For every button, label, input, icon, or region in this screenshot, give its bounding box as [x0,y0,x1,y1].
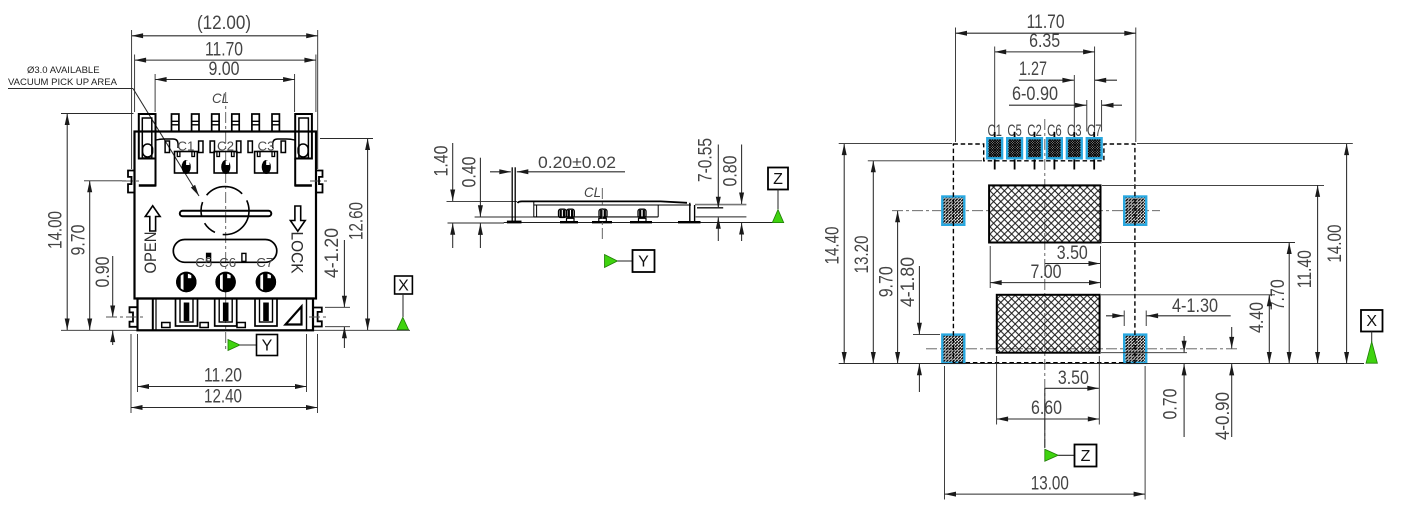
body profile [518,201,695,221]
bottom right tab [313,308,322,327]
pad mid-right [1124,197,1146,225]
svg-text:11.70: 11.70 [205,40,243,61]
svg-text:11.40: 11.40 [1295,250,1316,288]
svg-text:(12.00): (12.00) [197,13,251,34]
svg-text:9.70: 9.70 [69,225,90,256]
pick-up circle (dashed) [201,187,249,235]
svg-text:14.00: 14.00 [1325,225,1346,263]
svg-text:VACUUM PICK UP AREA: VACUUM PICK UP AREA [8,77,118,88]
pad C2 [1027,122,1042,170]
svg-text:C5: C5 [195,255,212,270]
dim 11.70 [135,40,316,113]
contact bump [638,209,646,217]
dim 1.40 [432,143,453,248]
dim 3.50 lower [1045,368,1099,389]
dim 14.00 [46,114,134,331]
dim 4.40 [1101,295,1275,364]
mid line ext [475,216,534,218]
dim 0.70 [1101,336,1187,437]
svg-text:Z: Z [1081,448,1091,465]
svg-text:OPEN: OPEN [141,232,160,274]
dim 11.70 (footprint) [956,12,1136,142]
middle view: side profile [432,138,789,272]
svg-text:12.60: 12.60 [347,202,368,240]
svg-text:C7: C7 [256,255,273,270]
svg-text:13.20: 13.20 [852,236,873,274]
dim (12.00) [132,13,318,169]
svg-text:4.40: 4.40 [1247,302,1268,333]
contact bump [559,209,567,217]
polarity triangle [286,307,302,325]
svg-text:4-1.80: 4-1.80 [898,257,919,307]
dim 11.40 [1102,185,1324,363]
small slots row [165,141,285,153]
pad C7 [1087,122,1102,170]
contact bump [567,209,575,217]
svg-text:7.00: 7.00 [1031,262,1062,283]
svg-text:3.50: 3.50 [1058,368,1089,389]
dim 9.70 (footprint) [877,211,898,364]
dim 3.50 upper [1045,243,1100,264]
dim 0.80 [721,145,742,242]
svg-text:0.80: 0.80 [721,156,742,187]
top contact pins row [172,114,280,132]
seating plane with feet [504,221,784,224]
bottom reference line [61,329,410,331]
pad C3 [1067,122,1082,170]
dim 4-0.90 [1213,327,1234,440]
svg-text:11.70: 11.70 [1027,12,1065,33]
svg-text:3.50: 3.50 [1057,243,1088,264]
svg-text:13.00: 13.00 [1031,474,1069,495]
datum Z (middle view) [768,168,788,223]
solder area upper [989,185,1100,242]
svg-text:LOCK: LOCK [288,232,307,275]
datum X (left view) [395,276,413,330]
svg-text:0.90: 0.90 [93,257,114,288]
dim 0.90 [93,256,114,345]
dim 13.20 [852,161,982,364]
dim 6.60 [997,356,1100,425]
dim 9.70 [69,181,127,330]
tab centerlines [106,316,144,318]
datum Y (middle view) [605,250,655,272]
dim 4-1.80 [898,257,940,392]
right view: PCB footprint [823,12,1383,500]
pad lower-left [942,335,964,363]
svg-text:CL: CL [212,90,229,106]
left view: connector top view [8,13,412,413]
svg-text:Y: Y [638,254,649,271]
svg-text:9.00: 9.00 [209,59,240,80]
svg-text:X: X [1366,313,1377,330]
dim 0.40 [460,157,481,249]
footprint dashed outline [953,144,1135,363]
pad C5 [1007,122,1022,170]
solder area lower [997,295,1100,353]
strip pin at x=226 [215,299,237,327]
rounded slot [173,240,276,263]
connector body outline [135,132,317,299]
datum Y (left view) [228,335,278,356]
svg-text:1.40: 1.40 [432,146,453,177]
svg-text:11.20: 11.20 [204,366,242,387]
contact C1 [175,139,198,175]
svg-text:4-1.30: 4-1.30 [1172,296,1218,317]
svg-text:6.35: 6.35 [1029,31,1060,52]
dim 0.20±0.02 [490,153,625,172]
vertical centerline [1044,119,1046,447]
svg-text:Y: Y [262,338,273,355]
centerline CL (middle view) [584,184,602,242]
metal cover tab (0.20 thick) [512,167,515,221]
svg-text:Ø3.0 AVAILABLE: Ø3.0 AVAILABLE [27,65,100,76]
bottom mounting strip [138,299,314,331]
pad C6 [1047,122,1062,170]
svg-text:0.40: 0.40 [460,157,481,188]
top surface ext line [447,200,518,202]
contact C6 [216,255,236,291]
right corner block (shell) [295,114,312,187]
contact C2 [214,139,237,175]
svg-text:0.20±0.02: 0.20±0.02 [538,153,616,172]
OPEN label + arrow [141,206,160,274]
dim 12.40 [131,334,318,413]
dim 7-0.55 [696,138,719,241]
svg-text:CL: CL [584,184,601,200]
svg-text:4-1.20: 4-1.20 [322,228,343,278]
svg-text:C6: C6 [219,255,236,270]
dim 14.40 [823,144,953,364]
dim 9.00 [155,59,295,112]
right side ext lines [695,205,746,217]
svg-text:1.27: 1.27 [1019,59,1047,80]
dim 7.70 [1102,243,1295,364]
shelf line [156,139,295,148]
LOCK label + arrow [288,206,307,274]
dim 4-1.20 [322,228,350,348]
dim 11.20 [138,334,307,392]
dim 13.00 [945,366,1146,500]
svg-text:9.70: 9.70 [877,266,898,297]
svg-text:12.40: 12.40 [204,387,242,408]
svg-text:Z: Z [773,171,783,188]
svg-text:X: X [398,278,409,295]
svg-text:7-0.55: 7-0.55 [696,138,717,182]
svg-text:14.40: 14.40 [823,227,844,265]
row centerline lower pads [926,348,1237,350]
contact C7 [256,255,275,291]
strip pin at x=266 [255,299,277,327]
dim 6-0.90 [1009,84,1122,132]
row centerline upper pads [892,210,1160,212]
bottom left tab [130,307,138,327]
contact C3 [255,139,278,175]
contact feet [567,218,647,221]
note leader: vacuum pick up area [8,65,199,196]
dim 12.60 [320,139,373,331]
left corner block (shell) [139,114,156,187]
datum Z (footprint) [1045,388,1097,466]
contact bump [599,209,607,217]
dim 14.00 (footprint) [1137,144,1353,364]
strip pin at x=186 [176,299,198,327]
dim 7.00 [990,246,1100,288]
pad C1 [987,122,1002,170]
centerline CL [212,90,229,349]
dim 1.27 [1019,59,1117,132]
svg-text:14.00: 14.00 [46,211,67,249]
contact C5 [177,255,212,291]
datum X (footprint) [1361,310,1383,363]
seating ext line left [448,222,505,224]
dim 4-1.30 [1106,296,1231,326]
svg-text:6.60: 6.60 [1031,398,1062,419]
strip feet rects [162,323,246,328]
svg-text:6-0.90: 6-0.90 [1012,84,1058,105]
upper left side tab [128,171,135,193]
upper right side tab [316,171,323,193]
svg-text:4-0.90: 4-0.90 [1213,392,1234,440]
slot bar [180,211,271,217]
dim 6.35 [995,31,1095,132]
bottom reference line [839,363,1364,365]
svg-text:0.70: 0.70 [1161,389,1182,420]
pad mid-left [942,197,964,225]
pad lower-right [1124,335,1146,363]
